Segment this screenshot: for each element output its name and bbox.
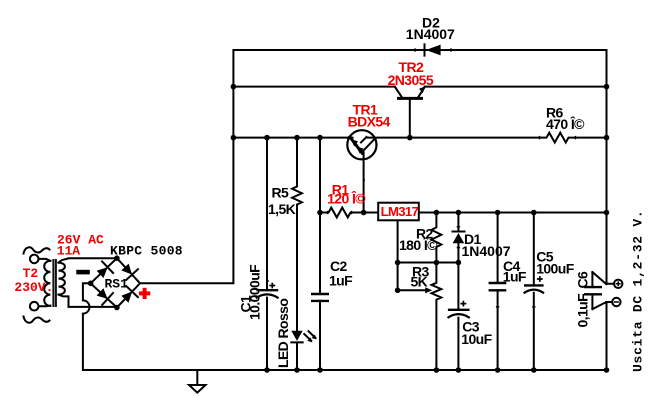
svg-text:230V.: 230V.	[14, 280, 53, 295]
svg-text:LM317: LM317	[381, 204, 419, 219]
svg-text:0,1uF: 0,1uF	[575, 293, 591, 328]
svg-text:R5: R5	[272, 185, 290, 201]
svg-text:C6: C6	[575, 271, 591, 289]
svg-text:BDX54: BDX54	[348, 113, 391, 129]
svg-text:1,5K: 1,5K	[268, 201, 296, 217]
svg-text:1uF: 1uF	[329, 272, 353, 288]
svg-text:11A: 11A	[57, 244, 81, 259]
svg-text:Uscita DC 1,2-32 V.: Uscita DC 1,2-32 V.	[631, 210, 646, 372]
svg-text:RS1: RS1	[105, 276, 129, 291]
svg-text:LED Rosso: LED Rosso	[275, 299, 291, 368]
svg-text:10uF: 10uF	[461, 331, 492, 347]
svg-text:10.000uF: 10.000uF	[247, 264, 263, 320]
svg-text:100uF: 100uF	[536, 260, 575, 276]
svg-text:180 Î©: 180 Î©	[399, 236, 438, 253]
svg-text:KBPC 5008: KBPC 5008	[110, 244, 183, 259]
svg-text:1N4007: 1N4007	[406, 26, 455, 42]
svg-text:5K: 5K	[411, 273, 428, 289]
svg-text:120 Î©: 120 Î©	[327, 190, 366, 207]
svg-text:2N3055: 2N3055	[388, 72, 434, 88]
svg-text:1N4007: 1N4007	[462, 243, 511, 259]
svg-text:T2: T2	[23, 266, 39, 281]
svg-text:470 Î©: 470 Î©	[546, 115, 585, 132]
svg-text:1uF: 1uF	[503, 269, 527, 285]
